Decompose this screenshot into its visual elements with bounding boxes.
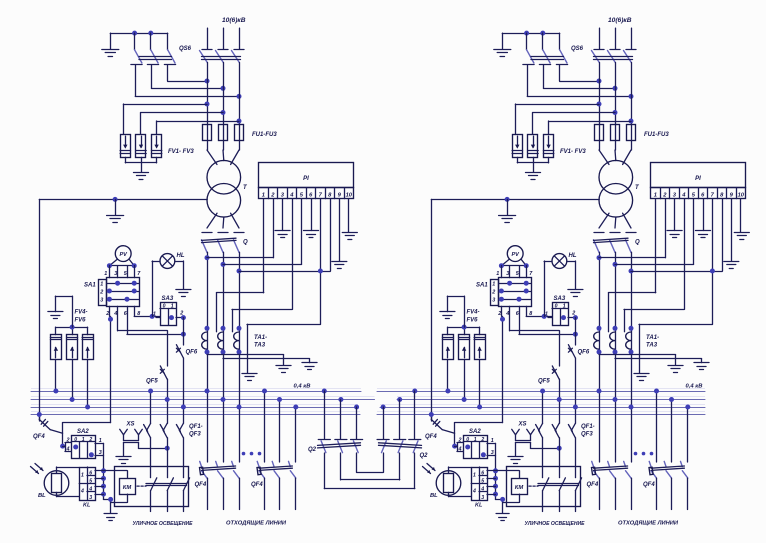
junction XS tap (right)	[557, 446, 562, 451]
wire cross link to phase C	[135, 96, 239, 98]
svg-text:4: 4	[480, 487, 484, 493]
wire HL right (right)	[567, 261, 576, 289]
junction on earthing rail	[132, 31, 153, 36]
label BL (right)	[430, 493, 438, 499]
junction SA1 pin6 to QF6	[181, 332, 186, 337]
ground terminal 6 (right)	[696, 231, 711, 238]
ground at HL	[176, 290, 191, 297]
ground at FV1-FV3 (right)	[526, 173, 541, 180]
wire phase B drop	[223, 63, 225, 151]
wire QF5 upper	[167, 331, 169, 366]
svg-text:ТА1-: ТА1-	[646, 335, 659, 341]
junction column dots	[101, 468, 106, 496]
contactor coil KM (right)	[512, 479, 528, 495]
wire earthing drop 2 (right)	[543, 65, 545, 89]
circuit breaker QF4 control	[39, 419, 50, 429]
wire HL left	[152, 261, 160, 316]
label 0.4kV	[294, 384, 311, 390]
svg-text:1: 1	[153, 312, 156, 318]
SA2 right terminals	[95, 438, 104, 456]
junction HL link (right)	[542, 314, 547, 319]
current transformer TA3	[234, 326, 242, 355]
outgoing feeder breaker QF4 group 2	[257, 391, 296, 510]
wire QF1 lower	[150, 438, 152, 467]
wire earthing drop 1	[135, 65, 137, 97]
svg-text:QF5: QF5	[538, 379, 550, 385]
SA2 left terminals	[63, 437, 72, 452]
fuse FU1	[203, 125, 212, 141]
svg-text:ОТХОДЯЩИЕ ЛИНИИ: ОТХОДЯЩИЕ ЛИНИИ	[226, 521, 287, 527]
wire lead into transformer A	[207, 150, 217, 165]
svg-text:Q2: Q2	[308, 447, 317, 453]
wire QF6 upper	[183, 318, 185, 345]
wire lead out of transformer A (right)	[599, 213, 609, 228]
label Q2 left	[308, 447, 317, 453]
svg-text:1: 1	[545, 312, 548, 318]
junction Q output C	[237, 269, 242, 274]
wire PV leads	[109, 259, 134, 266]
circuit breaker QF1	[144, 423, 151, 438]
ground at earthing switch	[102, 50, 119, 57]
label outgoing lines (right)	[618, 521, 679, 527]
junction neutral ground tap (right)	[505, 197, 510, 202]
wire QF6 lower	[183, 358, 185, 423]
ground at control circuit	[104, 514, 117, 521]
wire neutral below bus (right)	[431, 415, 433, 420]
switch SA1 (right)	[491, 266, 532, 307]
ground terminal 9 (right)	[724, 262, 739, 269]
svg-text:QS6: QS6	[571, 46, 584, 52]
svg-text:1: 1	[82, 437, 85, 443]
wire lead into transformer C (right)	[623, 150, 631, 165]
current transformer TA1	[202, 326, 210, 355]
outgoing feeder breaker QF4 group 2 (right)	[649, 391, 688, 510]
label HL	[177, 253, 185, 259]
wire SA1 pin4 (right)	[510, 306, 560, 330]
wire earthing drop 2	[151, 65, 153, 89]
label QF4 control (right)	[425, 434, 437, 440]
wire QF5 upper (right)	[559, 331, 561, 366]
SA1 contact dots	[107, 281, 137, 302]
wire tap to FV3 (right)	[549, 121, 632, 134]
svg-text:1: 1	[473, 473, 476, 479]
surge arrester FV3	[151, 135, 161, 158]
wire terminal 10	[348, 199, 350, 232]
svg-text:QF4: QF4	[33, 434, 45, 440]
ground CT link 2 (right)	[694, 363, 709, 370]
wire lead into transformer B	[222, 150, 225, 161]
junction phase C	[237, 94, 242, 99]
svg-text:PI: PI	[303, 176, 309, 182]
lamp HL	[160, 254, 175, 269]
svg-text:3: 3	[89, 495, 92, 501]
junction SA1 pin2 (right)	[500, 317, 505, 322]
svg-text:4: 4	[505, 311, 509, 317]
svg-text:KL: KL	[475, 503, 483, 509]
junction Q output B	[221, 262, 226, 267]
wire QF2 lower	[167, 438, 169, 467]
label QF5	[146, 379, 158, 385]
busbar 0.4kV sections	[31, 389, 705, 415]
svg-text:0: 0	[466, 437, 469, 443]
svg-text:1: 1	[262, 193, 265, 199]
wire QF1 lower (right)	[542, 438, 544, 467]
lamp HL (right)	[552, 254, 567, 269]
surge arrester FV1	[120, 135, 130, 158]
junction ground tap	[108, 497, 113, 502]
svg-text:QF1-: QF1-	[581, 424, 595, 430]
junction arrester tap A	[205, 102, 210, 107]
svg-text:SA1: SA1	[84, 283, 96, 289]
tie link middle	[341, 453, 400, 480]
svg-text:QF3: QF3	[581, 432, 593, 438]
SA2 contact dots	[73, 445, 94, 458]
ground CT link 3	[242, 374, 257, 381]
wire terminal 8	[239, 199, 331, 272]
label KL (right)	[475, 503, 483, 509]
wire QF4 to SA2	[50, 423, 62, 447]
wire terminal 10 (right)	[740, 199, 742, 232]
svg-text:1: 1	[104, 271, 107, 277]
wire terminal 7	[247, 199, 321, 373]
junction phase B	[221, 86, 226, 91]
wire CT ground link 2	[223, 359, 310, 363]
svg-text:QF4: QF4	[587, 482, 599, 488]
SA2 left terminals (right)	[455, 437, 464, 452]
SA3 terminal 2	[176, 311, 183, 318]
wire phase A to bus	[207, 252, 209, 391]
wire FV5 to bus (right)	[464, 360, 466, 400]
label TA1-TA3 (right)	[646, 335, 659, 349]
label SA3 (right)	[554, 296, 566, 302]
ground terminal 3	[275, 231, 290, 238]
label FV1-FV3	[168, 149, 194, 155]
wire phase A drop (right)	[599, 63, 601, 151]
bus junction dots	[37, 389, 299, 418]
SA1 pin labels bottom	[105, 311, 140, 317]
wire tap to FV1	[123, 104, 207, 134]
wire terminal 3	[282, 199, 284, 231]
wire QF6 lower (right)	[575, 358, 577, 423]
junction arrester tap C (right)	[629, 119, 634, 124]
contactor KM contacts (right)	[538, 467, 582, 507]
wire BL top (right)	[449, 467, 472, 473]
current transformer TA3 (right)	[626, 326, 634, 355]
label QF1-QF3	[189, 424, 203, 438]
wire SA1 pin6	[127, 306, 183, 334]
SA3 terminal 1 (right)	[545, 312, 552, 318]
street lighting panel box (right)	[507, 467, 581, 507]
svg-text:1: 1	[171, 303, 174, 309]
wire earthing rail (right)	[502, 33, 559, 35]
wire XS ground	[123, 442, 125, 456]
photoresistor BL	[44, 471, 69, 496]
svg-text:2: 2	[497, 311, 501, 317]
wire terminal 3 (right)	[674, 199, 676, 231]
svg-text:FU1-FU3: FU1-FU3	[252, 132, 277, 138]
svg-text:4: 4	[66, 446, 70, 452]
svg-text:5: 5	[89, 479, 92, 485]
junction SA1 pin2	[108, 317, 113, 322]
wire XS to QF2 (right)	[531, 442, 560, 448]
wire terminal 5 (right)	[615, 199, 694, 265]
outgoing feeder breaker QF4 group 1 (right)	[592, 391, 632, 510]
terminal block PI (right)	[651, 163, 746, 199]
svg-text:4: 4	[88, 487, 92, 493]
label QF4 group 1 (right)	[587, 482, 599, 488]
surge arrester FV1 (right)	[512, 135, 522, 158]
label 10(6)kV feeder (right)	[608, 17, 632, 24]
wire arrester bus (right)	[517, 157, 548, 163]
wire terminal 9	[339, 199, 341, 261]
svg-text:10(6)кВ: 10(6)кВ	[608, 17, 632, 24]
svg-text:SA3: SA3	[162, 296, 174, 302]
wire tap to FV1 (right)	[515, 104, 599, 134]
wire QF4 to SA2 (right)	[442, 423, 454, 447]
label FV4-FV6 (right)	[467, 310, 480, 324]
svg-text:ТА3: ТА3	[254, 343, 266, 349]
current transformer TA2 (right)	[610, 326, 618, 355]
wire cross link to phase B (right)	[544, 88, 616, 90]
wire column to ground	[104, 499, 111, 513]
wire QF5 lower	[167, 379, 169, 423]
junction phase A (right)	[597, 79, 602, 84]
label Q2 right	[420, 453, 429, 459]
wire SA1 pin8	[134, 306, 160, 316]
wire FV4 to bus	[55, 360, 57, 391]
svg-text:FV6: FV6	[467, 318, 479, 324]
svg-text:HL: HL	[569, 253, 577, 259]
wire terminal 5	[223, 199, 302, 265]
circuit breaker Q	[202, 233, 245, 253]
svg-text:0,4 кВ: 0,4 кВ	[686, 384, 703, 390]
junction arrester tap B	[221, 110, 226, 115]
label Q (right)	[635, 240, 640, 246]
label QF4 group 2	[251, 482, 263, 488]
disconnector QS6	[200, 50, 245, 63]
fuse FU3 (right)	[627, 125, 636, 141]
svg-text:PI: PI	[695, 176, 701, 182]
KL pin labels	[80, 470, 92, 501]
switch SA2	[71, 436, 95, 459]
circuit breaker QF4 control (right)	[431, 419, 442, 429]
wire SA1 pin6 (right)	[519, 306, 575, 334]
wire FV6 to bus (right)	[479, 360, 481, 407]
junction arrester tap A (right)	[597, 102, 602, 107]
transformer T primary winding	[207, 160, 241, 194]
switch SA3 (right)	[552, 303, 569, 326]
svg-text:1: 1	[491, 438, 494, 444]
svg-text:3: 3	[481, 495, 484, 501]
junction phase A	[205, 79, 210, 84]
label QS6 (right)	[571, 46, 584, 52]
wire neutral ground drop (right)	[507, 199, 509, 214]
svg-text:QS6: QS6	[179, 46, 192, 52]
svg-text:3: 3	[100, 298, 103, 304]
wire SA1 pin2 (right)	[501, 306, 503, 316]
junction arrester tap C	[237, 119, 242, 124]
svg-text:FV4-: FV4-	[467, 310, 480, 316]
label KL	[83, 503, 91, 509]
wire terminal 6 (right)	[703, 199, 705, 231]
wire phase A drop	[207, 63, 209, 151]
svg-text:КМ: КМ	[123, 485, 132, 491]
svg-text:SA2: SA2	[469, 429, 481, 435]
ground at transformer neutral	[107, 216, 124, 223]
label 10(6)kV feeder	[222, 17, 246, 24]
ground at XS (right)	[508, 457, 523, 464]
svg-text:1: 1	[492, 282, 495, 288]
svg-text:1: 1	[474, 437, 477, 443]
svg-text:6: 6	[481, 470, 484, 476]
wire terminal 1 (right)	[609, 199, 656, 332]
label QF5 (right)	[538, 379, 550, 385]
street lighting outputs	[151, 507, 184, 512]
svg-text:6: 6	[89, 470, 92, 476]
SA1 pin labels top	[104, 271, 141, 277]
wire cross link to phase A (right)	[560, 81, 599, 83]
wire SA1 pin8 (right)	[526, 306, 552, 316]
junction XS tap	[165, 446, 170, 451]
label BL	[38, 493, 46, 499]
wire CT ground link 1 (right)	[599, 355, 676, 365]
surge arrester FV5 (right)	[459, 335, 470, 360]
SA3 contact dot	[169, 315, 174, 320]
wire lead out of transformer B	[222, 217, 225, 228]
ground at control circuit (right)	[496, 514, 509, 521]
svg-text:HL: HL	[177, 253, 185, 259]
terminal numbers 1-10 (right)	[654, 193, 745, 199]
wire coil bottom feed (right)	[503, 494, 520, 502]
wire PV leads (right)	[501, 259, 526, 266]
fuse FU1 (right)	[595, 125, 604, 141]
svg-text:2: 2	[66, 437, 70, 443]
circuit breaker QF3 (right)	[568, 423, 575, 438]
SA3 terminal 1	[153, 312, 160, 318]
switch SA3	[160, 303, 177, 326]
wire FV4-6 ground bridge	[55, 296, 72, 327]
svg-text:Q: Q	[635, 240, 640, 246]
svg-text:0,4 кВ: 0,4 кВ	[294, 384, 311, 390]
ground terminal 9	[332, 262, 347, 269]
current transformer TA1 (right)	[594, 326, 602, 355]
wire FV4-6 rail	[56, 327, 88, 335]
junction Q output C (right)	[629, 269, 634, 274]
wire earthing drop 3 (right)	[559, 65, 561, 81]
ground at transformer neutral (right)	[499, 216, 516, 223]
ground at FV4-FV6 (right)	[440, 312, 455, 319]
ground CT link 1 (right)	[668, 366, 683, 373]
wire control column	[103, 443, 105, 499]
circuit breaker Q (right)	[594, 233, 637, 253]
terminal numbers 1-10	[262, 193, 353, 199]
earthing switch blades (right)	[523, 33, 568, 64]
svg-text:4: 4	[80, 489, 84, 495]
SA2 position labels (right)	[466, 437, 484, 443]
label QF4 control	[33, 434, 45, 440]
label QS6	[179, 46, 192, 52]
voltmeter PV (right)	[507, 246, 523, 262]
SA2 position labels	[74, 437, 92, 443]
SA3 position labels	[163, 303, 174, 309]
svg-text:SA1: SA1	[476, 283, 488, 289]
street lighting panel box	[115, 467, 189, 507]
wire lead out of transformer A	[207, 213, 217, 228]
svg-text:SA3: SA3	[554, 296, 566, 302]
wire terminal 4	[232, 199, 293, 332]
wire arrester ground drop (right)	[533, 163, 535, 172]
label SA1	[84, 283, 96, 289]
svg-text:QF4: QF4	[643, 482, 655, 488]
wire lead into transformer A (right)	[599, 150, 609, 165]
junction Q output B (right)	[613, 262, 618, 267]
svg-text:УЛИЧНОЕ ОСВЕЩЕНИЕ: УЛИЧНОЕ ОСВЕЩЕНИЕ	[525, 521, 585, 527]
svg-text:КМ: КМ	[515, 485, 524, 491]
wire incoming phase C (right)	[631, 28, 633, 49]
junction FV4-6 rail	[70, 325, 75, 330]
tie link outer	[324, 453, 415, 489]
street lighting outputs (right)	[543, 507, 576, 512]
junction PV rail	[107, 263, 137, 268]
wire FV5 to bus	[72, 360, 74, 400]
surge arrester FV6 (right)	[474, 335, 485, 360]
wire FV6 to bus	[87, 360, 89, 407]
ground at HL (right)	[568, 290, 583, 297]
label PI (right)	[695, 176, 701, 182]
svg-text:4: 4	[113, 311, 117, 317]
svg-text:QF4: QF4	[195, 482, 207, 488]
label TA1-TA3	[254, 335, 267, 349]
bus tie switch Q2 left	[318, 391, 363, 453]
wire HL right	[175, 261, 184, 289]
ground at earthing switch (right)	[494, 50, 511, 57]
junction FV4-6 rail (right)	[462, 325, 467, 330]
ellipsis more feeders (right)	[634, 452, 654, 456]
svg-text:1: 1	[99, 438, 102, 444]
ground at FV4-FV6	[48, 312, 63, 319]
switch SA2 (right)	[463, 436, 487, 459]
svg-text:QF3: QF3	[189, 432, 201, 438]
label PI	[303, 176, 309, 182]
junction SA2 input	[60, 444, 65, 449]
label QF6	[186, 350, 198, 356]
svg-text:2: 2	[491, 290, 495, 296]
outgoing feeder breaker QF4 group 1	[200, 391, 240, 510]
earthing switch blades	[131, 33, 176, 64]
circuit breaker QF3	[176, 423, 183, 438]
ground terminal 6	[304, 231, 319, 238]
junction on earthing rail (right)	[524, 31, 545, 36]
svg-text:2: 2	[88, 437, 92, 443]
surge arrester FV4 (right)	[442, 335, 453, 360]
tie link inner	[357, 453, 384, 473]
svg-text:FV6: FV6	[75, 318, 87, 324]
wire terminal 2	[207, 199, 274, 258]
SA1 pin labels bottom (right)	[497, 311, 532, 317]
svg-text:XS: XS	[518, 422, 527, 428]
SA1 contact dots (right)	[499, 281, 529, 302]
junction column dots (right)	[493, 468, 498, 496]
wire lead out of transformer B (right)	[614, 217, 617, 228]
svg-text:QF6: QF6	[578, 350, 590, 356]
wire BL bottom (right)	[449, 492, 472, 496]
bus tie junction dots	[322, 389, 418, 410]
svg-text:ТА3: ТА3	[646, 343, 658, 349]
SA2 contact dots (right)	[465, 445, 486, 458]
wire terminal 6	[311, 199, 313, 231]
SA3 position labels (right)	[555, 303, 566, 309]
label T	[243, 185, 248, 191]
